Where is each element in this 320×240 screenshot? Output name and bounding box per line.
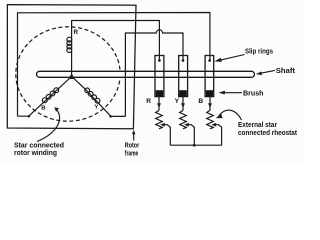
svg-text:Shaft: Shaft: [276, 67, 296, 75]
svg-text:frame: frame: [125, 150, 139, 158]
svg-text:connected rheostat: connected rheostat: [238, 129, 298, 137]
svg-text:Y: Y: [175, 98, 180, 105]
svg-text:Rotor: Rotor: [125, 142, 140, 150]
svg-text:R: R: [146, 98, 151, 105]
svg-text:rotor winding: rotor winding: [14, 149, 57, 157]
svg-text:External star: External star: [238, 121, 277, 129]
svg-text:Brush: Brush: [243, 89, 264, 97]
svg-text:B: B: [41, 106, 45, 112]
svg-text:Y: Y: [94, 104, 98, 110]
svg-text:B: B: [198, 98, 203, 105]
svg-text:Slip rings: Slip rings: [245, 48, 273, 56]
svg-text:R: R: [74, 29, 79, 36]
